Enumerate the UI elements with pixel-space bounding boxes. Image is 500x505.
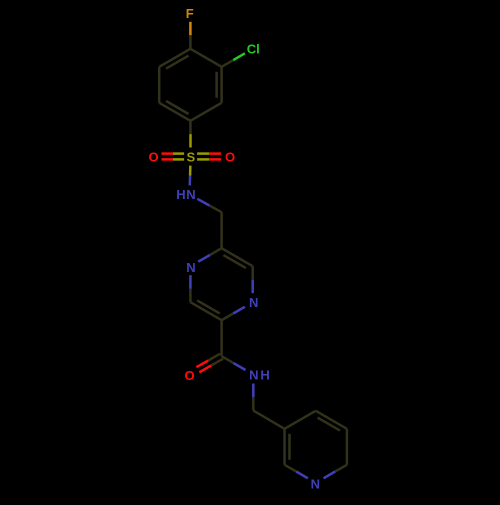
svg-text:Cl: Cl (247, 42, 260, 57)
svg-text:H: H (176, 187, 185, 202)
svg-text:O: O (184, 368, 194, 383)
svg-text:O: O (148, 149, 158, 164)
svg-text:N: N (249, 295, 258, 310)
svg-text:O: O (225, 149, 235, 164)
svg-text:N: N (186, 187, 195, 202)
svg-text:N: N (311, 476, 320, 491)
svg-text:S: S (186, 149, 195, 164)
svg-text:F: F (186, 6, 194, 21)
svg-text:H: H (260, 367, 269, 382)
svg-text:N: N (186, 260, 195, 275)
svg-text:N: N (249, 367, 258, 382)
